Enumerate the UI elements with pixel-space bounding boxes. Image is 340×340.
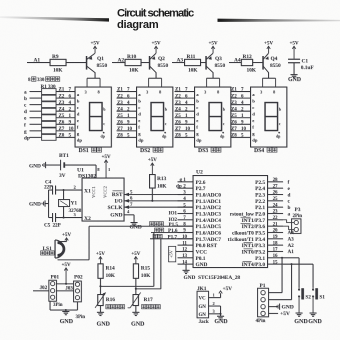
wire cap ground bus [49,189,53,191]
wire P3.1 net [283,257,299,259]
resistor R1-g 330 [42,128,57,134]
wire Z3 to DS3 [175,104,195,106]
wire battery to VCC1 [64,164,96,166]
wire Z1 to DS2 [117,91,137,93]
wire collector Q2 [155,72,157,78]
pin 4 U2 [178,200,194,202]
wire base net A4 [229,62,241,64]
wire P1 pin2 [269,299,292,301]
ground R16 [97,312,111,327]
wire base net A1 [27,62,50,64]
ground R17 [131,312,145,327]
+5V supply for LS1 [62,232,71,242]
+5V supply for P01/P02 [61,262,70,284]
pin 27 U2 [268,187,284,189]
label DS2 common-anode [140,147,163,154]
wire speaker to P1.5 net [58,259,90,261]
resistor R1-a 330 [42,89,57,95]
wire Z1 to DS3 [175,91,195,93]
pin 21 U2 [268,225,284,227]
U2 pin name texts [196,180,266,268]
wire Z8 to DS3 [175,136,195,138]
wire P3.0 net [283,263,313,265]
wire U1 I/O to U2 [124,200,193,202]
wire Z5 to DS3 [175,117,195,119]
wire pin21 to P3 [283,226,294,229]
wire Z4 to DS4 [231,110,251,112]
overlines on INT pin names [241,217,253,261]
wire R16 to ground [99,306,101,313]
+5V supply for Q1 [90,40,99,53]
wire R14 to R16 [99,278,101,294]
wire heat net row [150,238,193,240]
resistor R1-c 330 [42,102,57,108]
wire X2 (crystal node) [56,217,83,219]
node heat net P1.7 [153,234,177,240]
wire Z7 to DS4 [231,130,251,132]
wire Z2 to DS4 [231,97,251,99]
label DS1 common-anode [79,147,102,154]
resistor R9 10K [50,54,66,74]
wire P1 pin3 to gnd [269,306,279,308]
resistor R17 thermistor [128,292,161,308]
wire segment c row [30,104,42,106]
connector P3 2Pin [292,207,303,233]
+5V supply for R14 [96,251,105,264]
resistor R1-h 330 [42,134,57,140]
wire P1 pin1 [269,292,283,294]
wire collector Q4 [268,72,270,78]
pin 16 U2 [268,257,284,259]
wire light net row [151,231,193,233]
wire segment a row [30,91,42,93]
pin 28 U2 [268,181,284,183]
resistor R1-e 330 [42,115,57,121]
transistor Q2 8550 PNP [150,53,169,72]
wire U1 GND pin 4 [124,214,134,216]
connector P02 3Pin [74,274,86,320]
pin 3 U2 [178,193,194,195]
wire Z4 to DS2 [117,110,137,112]
pin 11 U2 [178,244,194,246]
wire Z7 to DS2 [117,130,137,132]
wire gnd to battery [46,164,61,166]
ground battery [29,162,46,169]
op-amp U1 DS1302 (RTC) [77,167,124,222]
pin 24 U2 [268,206,284,208]
IC U2 STC15F204EA [193,169,268,267]
wire Z3 to DS4 [231,104,251,106]
wire common anode of DS3 [207,77,220,79]
wire Z2 to DS3 [175,97,195,99]
wire R12 to base [253,62,263,64]
+5V supply for Q3 [208,40,217,53]
wire R15 to R17 [135,278,137,294]
transistor Q4 8550 PNP [263,53,281,72]
transistor Q3 8550 PNP [206,53,225,72]
ground P1 [277,304,294,311]
connector P1 4Pin [256,283,269,324]
wire collector Q3 [212,72,214,78]
resistor R1-d 330 [42,108,57,114]
wire U2 GND [185,264,187,270]
pin 23 U2 [268,212,284,214]
pin 18 U2 [268,244,284,246]
label DS4 common-anode [254,147,277,154]
wire J03 [56,290,73,292]
pin 8 U2 [178,225,194,227]
pin 13 U2 [178,257,194,259]
wire segment d row [30,110,42,112]
ground S1 [308,313,322,325]
wire segment dp row [30,136,42,138]
resistor R11 10K [185,54,201,74]
wire Z4 to DS3 [175,110,195,112]
wire P02 to ground [76,302,78,310]
wire Z7 to DS3 [175,130,195,132]
resistor R16 photoresistor [95,292,125,308]
7-segment display DS1 (common anode) [75,87,111,147]
connector JK1 power jack [197,286,209,325]
wire temp sensor node to P1.7 [136,288,161,290]
node buzzer net P1.5 [150,222,179,228]
ground C1 [288,75,301,83]
wire pin22 to P3 [283,220,294,223]
wire Z2 to DS2 [117,97,137,99]
+5V supply for Q4 [264,40,273,53]
wire R9 to base [66,62,87,64]
wire common anode of DS4 [263,77,276,79]
pin 12 U2 [178,250,194,252]
wire JK1 to ground [220,314,222,316]
pin 9 U2 [178,231,194,233]
wire U1 RST to U2 [124,193,193,195]
pin 15 U2 [268,263,284,265]
pin 10 U2 [178,238,194,240]
wire R17 to ground [135,306,137,313]
resistor R10 10K [125,54,141,74]
resistor network label 8x330 ohm [28,77,60,83]
capacitor C4 22P [44,179,56,194]
wire common anode of DS2 [149,77,162,79]
transistor Q1 8550 PNP [87,53,108,72]
wire JK1 VCC to +5V [209,297,221,299]
capacitor C1 0.1uF [288,58,314,71]
pin 25 U2 [268,200,284,202]
7-segment display DS3 (common anode) [195,87,231,147]
resistor R13 10K [150,175,168,190]
resistor R1-f 330 [42,121,57,127]
+5V supply for U1 VCC2 [101,154,110,178]
ground crystal caps [29,200,49,207]
wire Z8 to DS2 [117,136,137,138]
wire base net A2 [112,62,125,64]
wire C1 to ground [293,63,295,75]
pin 6 U2 [178,212,194,214]
ground U2 [183,270,196,281]
pin 26 U2 [268,193,284,195]
wire collector Q1 [94,72,96,78]
resistor R1-b 330 [42,95,57,101]
battery BT1 3V [59,153,69,179]
wire +5V to speaker [59,241,67,243]
wire segment f row [30,123,42,125]
wire R10 to base [141,62,150,64]
label DS3 common-anode [198,147,221,154]
capacitor C5 22P [44,213,61,229]
wire P01 to ground [49,301,51,310]
right divider line [218,19,340,22]
resistor R15 10K [133,264,151,279]
wire Z3 to DS2 [117,104,137,106]
+5V supply for R15 [131,251,140,264]
wire U1 SCLK to U2 [124,206,193,208]
wire Z6 to DS2 [117,123,137,125]
wire Z6 to DS4 [231,123,251,125]
wire JK1 gnd loop [209,305,221,307]
wire R11 to base [201,62,207,64]
switch S1 push button [312,288,325,313]
wire X1 (crystal node) [56,189,83,191]
+5V supply for R13 [148,157,157,174]
crystal Y1 32768 [59,189,82,219]
ground P01/P02 [60,312,74,326]
ground S2 [294,313,308,325]
wire P1 pin4 to +5V [269,312,279,314]
pin 20 U2 [268,231,284,233]
wire Z5 to DS4 [231,117,251,119]
wire base net A3 [172,62,185,64]
switch S2 push button [298,288,311,313]
resistor R14 10K [98,264,116,279]
wire segment g row [30,130,42,132]
ground U1 [130,223,142,231]
7-segment display DS2 (common anode) [137,87,173,147]
ground JK1 [214,316,227,325]
wire Z5 to DS2 [117,117,137,119]
connector P01 3Pin [49,274,63,308]
wire light sensor node to P1.6 [100,285,153,287]
pin 19 U2 [268,238,284,240]
pin 2 U2 [178,187,194,189]
pin 22 U2 [268,219,284,221]
pin 7 U2 [178,219,194,221]
wire Z1 to DS4 [231,91,251,93]
wire Z8 to DS4 [231,136,251,138]
pin 17 U2 [268,250,284,252]
+5V supply for C1 [289,40,298,58]
+5V supply for Q2 [151,40,160,53]
speaker LS1 (buzzer) [41,240,65,258]
wire R13 to I/O line [151,188,153,201]
pin 14 U2 [178,263,194,265]
+5V supply for U2 VCC [168,246,177,261]
pin 5 U2 [178,206,194,208]
wire Z6 to DS3 [175,123,195,125]
pin 1 U2 [178,181,194,183]
+5V supply JK1 [219,286,232,293]
wire segment b row [30,97,42,99]
wire J02 [33,290,49,292]
node light net P1.6 [155,228,178,234]
wire common anode of DS1 [87,77,100,79]
wire segment e row [30,117,42,119]
resistor R12 10K [241,54,256,74]
wire +5V to connectors [56,283,73,285]
7-segment display DS4 (common anode) [251,87,287,147]
